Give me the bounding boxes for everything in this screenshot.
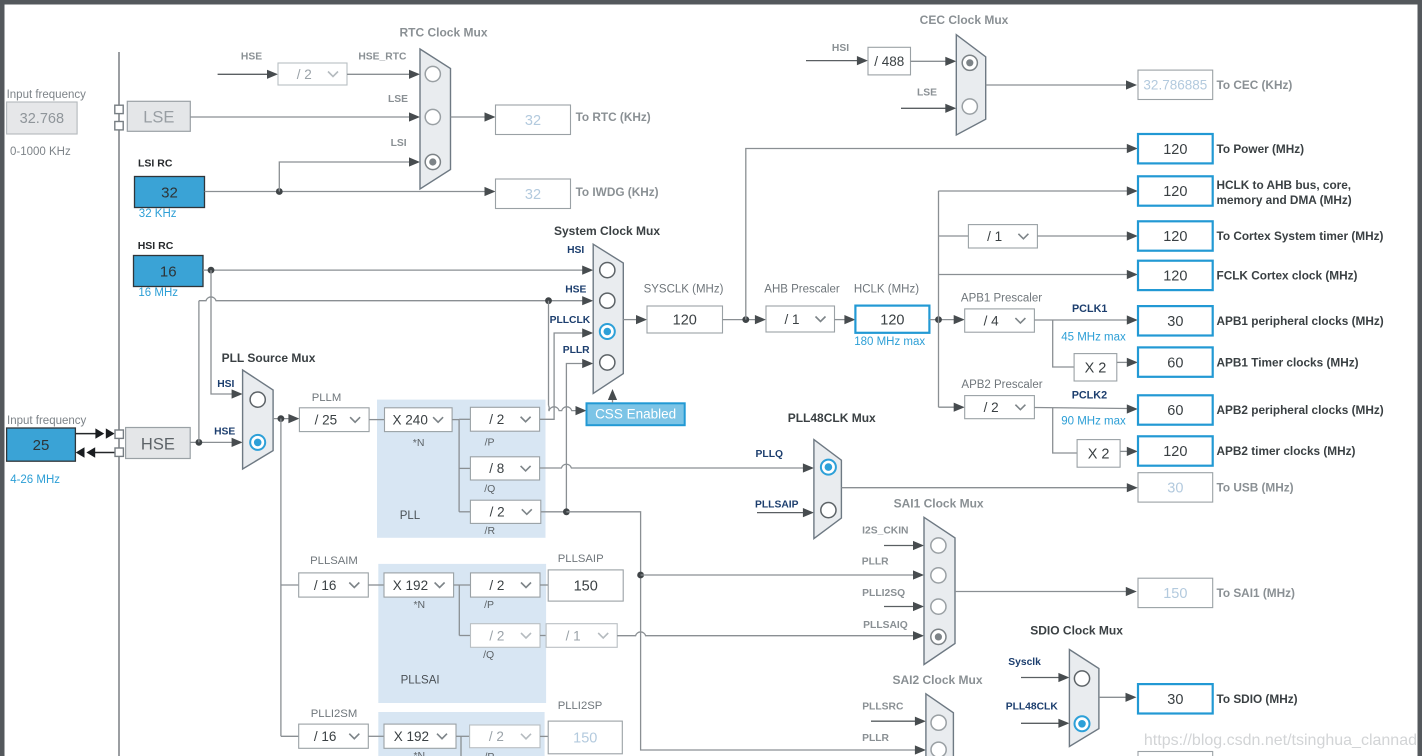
mux: SAI1 Clock Mux bbox=[924, 517, 955, 664]
radio: sai2 PLLSRC bbox=[931, 715, 946, 730]
label: HCLK (MHz) bbox=[854, 283, 919, 295]
wire: RTC mux to To RTC box bbox=[451, 112, 496, 121]
radio: sys PLLCLK selected bbox=[600, 324, 615, 339]
wire: APB2 out bbox=[1034, 404, 1137, 413]
title: RTC Clock Mux bbox=[399, 26, 487, 40]
svg-text:APB1 Timer clocks (MHz): APB1 Timer clocks (MHz) bbox=[1217, 355, 1359, 369]
block: PLLI2S background bbox=[378, 712, 544, 756]
wire: HSI stub to /488 bbox=[806, 56, 868, 65]
radio: pll48 PLLSAIP bbox=[821, 503, 836, 518]
svg-text:25: 25 bbox=[33, 437, 50, 454]
svg-text:/ 4: / 4 bbox=[984, 313, 1000, 328]
svg-text:HSE_RTC: HSE_RTC bbox=[358, 52, 407, 63]
dropdown: Cortex /1 bbox=[968, 225, 1037, 248]
svg-text:APB2 Prescaler: APB2 Prescaler bbox=[961, 379, 1042, 391]
svg-text:LSI RC: LSI RC bbox=[138, 158, 173, 170]
radio: sys PLLR bbox=[600, 355, 615, 370]
svg-text:SAI2 Clock Mux: SAI2 Clock Mux bbox=[892, 673, 982, 687]
svg-text:180 MHz max: 180 MHz max bbox=[854, 336, 925, 348]
watermark bbox=[1144, 732, 1417, 749]
svg-text:HSI: HSI bbox=[217, 379, 234, 390]
label: APB2 Prescaler bbox=[961, 379, 1042, 391]
mux: RTC Clock Mux bbox=[420, 49, 451, 189]
svg-text:90 MHz max: 90 MHz max bbox=[1061, 416, 1126, 428]
svg-text:PLL48CLK: PLL48CLK bbox=[1006, 702, 1059, 713]
radio: RTC LSI selected bbox=[425, 154, 440, 169]
wire: HSI down to PLL mux bbox=[211, 270, 243, 399]
radio: sai1 PLLR bbox=[931, 568, 946, 583]
svg-text:30: 30 bbox=[1167, 692, 1183, 708]
svg-text:HSI: HSI bbox=[567, 245, 584, 256]
svg-text:PLLSAIM: PLLSAIM bbox=[310, 555, 358, 567]
svg-text:60: 60 bbox=[1167, 403, 1183, 419]
svg-text:16: 16 bbox=[160, 263, 177, 280]
dropdown: APB2 /2 bbox=[965, 396, 1035, 419]
svg-text:*N: *N bbox=[413, 750, 425, 756]
title: PLL48CLK Mux bbox=[788, 411, 876, 425]
label: PCLK2 bbox=[1072, 390, 1107, 402]
wire: X2 to APB1 timer box bbox=[1117, 358, 1138, 367]
wire: to HCLK-AHB box bbox=[939, 186, 1138, 195]
wire: PLLCLK from /P to system mux bbox=[540, 328, 593, 419]
wire: PLL source vertical to PLLSAIM/PLLI2SM bbox=[281, 419, 299, 737]
wire: PLL mux out to PLLM bbox=[273, 414, 299, 423]
block: PLLSAI background bbox=[378, 564, 546, 703]
svg-text:/Q: /Q bbox=[483, 649, 494, 661]
box: bottom cut output box bbox=[1138, 752, 1213, 756]
svg-text:To USB (MHz): To USB (MHz) bbox=[1217, 481, 1294, 495]
label: PLLSAIP (pll48 input) bbox=[755, 500, 799, 511]
wire: APB1 X2 branch bbox=[1053, 320, 1074, 367]
label: HSE_RTC bbox=[358, 52, 407, 63]
dropdown: PLLI2SM /16 bbox=[299, 724, 369, 748]
label: PLLM bbox=[312, 392, 342, 404]
svg-text:32: 32 bbox=[525, 187, 541, 203]
svg-text:To SDIO (MHz): To SDIO (MHz) bbox=[1217, 692, 1298, 706]
wire: HCLK vertical bbox=[938, 191, 940, 407]
svg-text:PLLI2SM: PLLI2SM bbox=[311, 708, 357, 720]
label: PLLR (sai2) bbox=[862, 733, 889, 744]
svg-text:AHB Prescaler: AHB Prescaler bbox=[764, 283, 840, 295]
label: HSI (cec stub) bbox=[832, 43, 849, 54]
svg-text:/P: /P bbox=[485, 437, 495, 449]
svg-text:LSI: LSI bbox=[391, 138, 407, 149]
dropdown: AHB /1 bbox=[766, 306, 835, 332]
label: Input frequency (HSE) bbox=[7, 415, 87, 427]
label: PLLI2SM bbox=[311, 708, 357, 720]
radio: RTC HSE_RTC bbox=[425, 66, 440, 81]
svg-text:/ 16: / 16 bbox=[314, 578, 337, 593]
wire: to cortex divider bbox=[939, 235, 969, 237]
svg-text:/ 2: / 2 bbox=[490, 505, 505, 520]
wire: PLL48CLK stub bbox=[1021, 719, 1069, 728]
svg-text:https://blog.csdn.net/tsinghua: https://blog.csdn.net/tsinghua_clannad bbox=[1144, 732, 1417, 749]
radio: sai1 PLLSAIQ selected bbox=[931, 629, 946, 644]
label: I2S_CKIN bbox=[862, 526, 908, 537]
mux: CEC Clock Mux bbox=[956, 35, 985, 135]
svg-text:LSE: LSE bbox=[917, 87, 937, 98]
svg-text:4-26 MHz: 4-26 MHz bbox=[10, 474, 60, 486]
box: HSI RC 16 bbox=[134, 256, 204, 287]
label: Input frequency (LSE) bbox=[7, 89, 87, 101]
svg-text:PLLSRC: PLLSRC bbox=[862, 702, 904, 713]
wire: PLLI2SQ stub bbox=[884, 602, 924, 611]
label: PLLQ bbox=[756, 449, 783, 460]
dropdown: PLL N X240 bbox=[385, 408, 453, 432]
label: Sysclk bbox=[1008, 657, 1041, 668]
wire: I2S_CKIN stub bbox=[884, 541, 924, 550]
box: X2 (APB1 timers) bbox=[1074, 354, 1117, 381]
dropdown: APB1 /4 bbox=[965, 309, 1035, 332]
wire: HSE up and to system mux bbox=[199, 296, 593, 442]
box: X2 (APB2 timers) bbox=[1077, 440, 1120, 468]
svg-text:120: 120 bbox=[1163, 444, 1187, 460]
box+label: HCLK to AHB bus bbox=[1138, 176, 1352, 207]
svg-text:System Clock Mux: System Clock Mux bbox=[554, 224, 660, 238]
label: HSI (sys input) bbox=[567, 245, 584, 256]
dropdown: PLLSAI N X192 bbox=[384, 573, 454, 597]
svg-text:To RTC (KHz): To RTC (KHz) bbox=[576, 110, 651, 124]
title: CEC Clock Mux bbox=[920, 13, 1009, 27]
box+label: To Power (MHz) bbox=[1138, 134, 1304, 163]
wire: LSE stub to CEC mux bbox=[901, 104, 956, 113]
label: 4-26 MHz bbox=[10, 474, 60, 486]
svg-text:45 MHz max: 45 MHz max bbox=[1061, 331, 1126, 343]
wire: SYSCLK to AHB prescaler bbox=[723, 315, 766, 324]
svg-text:/ 2: / 2 bbox=[489, 729, 504, 744]
box: LSE oscillator bbox=[127, 101, 190, 131]
dropdown: PLL /R bbox=[470, 500, 540, 523]
label: To IWDG (KHz) bbox=[576, 185, 659, 199]
label: LSE (rtc input) bbox=[388, 94, 408, 105]
box+label: To SAI1 (MHz) bbox=[1138, 578, 1295, 607]
box+label: To Cortex System timer (MHz) bbox=[1138, 221, 1384, 250]
svg-text:memory and DMA (MHz): memory and DMA (MHz) bbox=[1217, 193, 1352, 207]
wire: LSI branch to RTC mux bbox=[279, 157, 420, 191]
mux: SDIO Clock Mux bbox=[1069, 650, 1099, 747]
svg-text:120: 120 bbox=[1163, 142, 1187, 158]
svg-text:HSI RC: HSI RC bbox=[138, 240, 174, 252]
wire: CEC mux to To CEC box bbox=[986, 80, 1137, 89]
dropdown: PLLM /25 bbox=[299, 408, 369, 432]
dropdown: PLLSAIM /16 bbox=[299, 573, 369, 597]
dropdown: PLL /Q bbox=[470, 457, 539, 480]
wire: APB2 X2 branch bbox=[1053, 408, 1077, 454]
label: LSI RC bbox=[138, 158, 173, 170]
svg-text:16 MHz: 16 MHz bbox=[138, 287, 178, 299]
wire: AHB to HCLK bbox=[835, 315, 856, 324]
wire: divider to RTC mux bbox=[347, 70, 420, 79]
svg-text:/ 2: / 2 bbox=[297, 67, 312, 82]
wire: PLLSAIM to X192 bbox=[368, 584, 384, 586]
svg-text:PLLR: PLLR bbox=[563, 345, 590, 356]
label: *N (PLL) bbox=[413, 437, 425, 449]
svg-text:CSS Enabled: CSS Enabled bbox=[595, 407, 676, 422]
label: PLLSAIP (box label) bbox=[558, 553, 604, 565]
svg-text:X 240: X 240 bbox=[393, 413, 428, 428]
box: PLLSAIP 150 bbox=[548, 570, 623, 601]
svg-text:HSI: HSI bbox=[832, 43, 849, 54]
svg-text:PLL: PLL bbox=[400, 510, 421, 522]
title: PLL Source Mux bbox=[222, 351, 316, 365]
label: /R (PLL) bbox=[485, 525, 496, 537]
label: PLLSAI bbox=[401, 675, 440, 687]
label: /P (PLLI2S) bbox=[484, 751, 494, 756]
box: HCLK 120 bbox=[855, 306, 929, 333]
label: PLL bbox=[400, 510, 421, 522]
mux: PLL Source Mux bbox=[243, 370, 274, 469]
svg-text:/ 1: / 1 bbox=[566, 628, 581, 643]
box+label: APB1 Timer clocks (MHz) bbox=[1138, 347, 1359, 376]
radio: CEC HSI selected bbox=[962, 55, 977, 70]
mux: System Clock Mux bbox=[593, 244, 623, 393]
svg-text:*N: *N bbox=[413, 437, 425, 449]
svg-text:PLLCLK: PLLCLK bbox=[550, 315, 591, 326]
svg-text:/P: /P bbox=[484, 751, 494, 756]
svg-text:150: 150 bbox=[573, 731, 597, 747]
svg-text:APB2 peripheral clocks (MHz): APB2 peripheral clocks (MHz) bbox=[1217, 403, 1384, 417]
svg-text:PLLSAI: PLLSAI bbox=[401, 675, 440, 687]
radio: sai1 PLLI2SQ bbox=[931, 599, 946, 614]
label: HSE (rtc stub) bbox=[241, 52, 262, 63]
box: CSS Enabled bbox=[587, 403, 685, 425]
radio: sys HSI bbox=[600, 263, 615, 278]
svg-text:0-1000 KHz: 0-1000 KHz bbox=[10, 146, 71, 158]
radio: RTC LSE bbox=[425, 109, 440, 124]
box+label: FCLK Cortex clock (MHz) bbox=[1138, 261, 1357, 290]
wire: to FCLK box bbox=[939, 270, 1138, 279]
label: APB1 Prescaler bbox=[961, 292, 1042, 304]
svg-text:/ 2: / 2 bbox=[489, 578, 504, 593]
label: 45 MHz max bbox=[1061, 331, 1126, 343]
svg-text:/ 16: / 16 bbox=[314, 729, 337, 744]
svg-text:X 2: X 2 bbox=[1088, 447, 1110, 463]
wire: X240 split to P/Q/R bbox=[452, 419, 470, 512]
svg-text:LSE: LSE bbox=[388, 94, 408, 105]
svg-text:PCLK1: PCLK1 bbox=[1072, 303, 1107, 315]
svg-text:PLLR: PLLR bbox=[862, 733, 889, 744]
svg-text:HSE: HSE bbox=[214, 427, 235, 438]
wire: X2 to APB2 timer box bbox=[1120, 447, 1138, 456]
svg-text:APB2 timer clocks (MHz): APB2 timer clocks (MHz) bbox=[1217, 444, 1356, 458]
svg-text:PLLSAIP: PLLSAIP bbox=[755, 500, 799, 511]
wire: CSS tap from HSE bbox=[549, 301, 587, 416]
label: *N (PLLSAI) bbox=[413, 599, 425, 611]
svg-text:32.768: 32.768 bbox=[20, 111, 64, 127]
label: PLLI2SP bbox=[558, 700, 603, 712]
box+label: APB2 timer clocks (MHz) bbox=[1138, 436, 1356, 465]
wire: SDIO mux to box bbox=[1099, 693, 1137, 702]
wire: PLLR from /R to system mux and SAI bbox=[541, 359, 926, 755]
svg-text:PLLM: PLLM bbox=[312, 392, 342, 404]
wire: Sysclk stub bbox=[1021, 673, 1069, 682]
svg-text:APB1 peripheral clocks (MHz): APB1 peripheral clocks (MHz) bbox=[1217, 314, 1384, 328]
svg-text:120: 120 bbox=[673, 313, 697, 329]
wire: to APB2 prescaler bbox=[939, 403, 965, 412]
label: /P (PLLSAI) bbox=[484, 599, 494, 611]
label: PLLSAIQ (sai1) bbox=[863, 620, 908, 631]
svg-text:CEC Clock Mux: CEC Clock Mux bbox=[920, 13, 1009, 27]
svg-text:To IWDG (KHz): To IWDG (KHz) bbox=[576, 185, 659, 199]
wire: cortex divider to box bbox=[1037, 231, 1137, 240]
label: HSE (sys input) bbox=[565, 285, 586, 296]
svg-text:PLLSAIQ: PLLSAIQ bbox=[863, 620, 908, 631]
svg-text:To Power (MHz): To Power (MHz) bbox=[1217, 142, 1305, 156]
label: 90 MHz max bbox=[1061, 416, 1126, 428]
wire: HCLK out to APB1 bbox=[929, 315, 964, 324]
wire: PLLSRC stub bbox=[871, 717, 926, 726]
box: HSE oscillator bbox=[126, 428, 191, 459]
box+label: To USB (MHz) bbox=[1138, 473, 1294, 502]
wire: HSE out to PLL mux bbox=[190, 438, 242, 447]
label: PLL48CLK (sdio) bbox=[1006, 702, 1059, 713]
svg-text:120: 120 bbox=[880, 312, 904, 328]
svg-text:PLLQ: PLLQ bbox=[756, 449, 783, 460]
wire: HSI out to system mux bbox=[203, 266, 593, 275]
title: SDIO Clock Mux bbox=[1030, 624, 1123, 638]
wire: X192-2 split bbox=[456, 736, 470, 756]
box+label: To SDIO (MHz) bbox=[1138, 684, 1298, 713]
wire: left source rail vertical bbox=[118, 52, 120, 756]
svg-text:/ 2: / 2 bbox=[489, 628, 504, 643]
svg-text:Input frequency: Input frequency bbox=[7, 415, 87, 427]
svg-text:32: 32 bbox=[525, 113, 541, 129]
svg-text:30: 30 bbox=[1167, 481, 1183, 497]
label: /P (PLL) bbox=[485, 437, 495, 449]
svg-text:HCLK to AHB bus, core,: HCLK to AHB bus, core, bbox=[1217, 178, 1352, 192]
svg-text:/ 2: / 2 bbox=[984, 400, 999, 415]
svg-text:APB1 Prescaler: APB1 Prescaler bbox=[961, 292, 1042, 304]
wire: PLL48 mux to USB box bbox=[841, 483, 1137, 492]
dropdown: PLLSAI /Q bbox=[471, 624, 541, 648]
box+label: APB1 peripheral clocks (MHz) bbox=[1138, 306, 1384, 335]
svg-text:X 192: X 192 bbox=[393, 578, 428, 593]
wire: /P to PLLI2SP box bbox=[540, 735, 548, 737]
box: To IWDG value 32 bbox=[496, 179, 571, 209]
label: HSE (pll input) bbox=[214, 427, 235, 438]
label: HSI RC bbox=[138, 240, 174, 252]
svg-text:PLL Source Mux: PLL Source Mux bbox=[222, 351, 316, 365]
label: PLLR (sai1) bbox=[862, 556, 889, 567]
svg-text:PCLK2: PCLK2 bbox=[1072, 390, 1107, 402]
dropdown: RTC HSE divider /2 bbox=[278, 63, 347, 85]
svg-text:*N: *N bbox=[413, 599, 425, 611]
svg-text:RTC Clock Mux: RTC Clock Mux bbox=[399, 26, 487, 40]
svg-text:/ 2: / 2 bbox=[489, 412, 504, 427]
svg-text:/ 1: / 1 bbox=[987, 229, 1002, 244]
svg-text:X 192: X 192 bbox=[394, 729, 429, 744]
svg-text:150: 150 bbox=[574, 579, 598, 595]
label: PLLSAIM bbox=[310, 555, 358, 567]
wire: APB1 out bbox=[1034, 315, 1137, 324]
label: PLLR (sys input) bbox=[563, 345, 590, 356]
label: *N (PLLI2S) bbox=[413, 750, 425, 756]
wire: /488 to CEC mux bbox=[910, 57, 956, 66]
wire: X192 split bbox=[454, 585, 471, 636]
svg-text:To CEC (KHz): To CEC (KHz) bbox=[1217, 78, 1293, 92]
wire: PLLQ from /Q bbox=[540, 463, 814, 472]
title: SAI1 Clock Mux bbox=[894, 497, 984, 511]
title: System Clock Mux bbox=[554, 224, 660, 238]
dropdown: PLLSAI /Q divider /1 bbox=[546, 624, 617, 648]
svg-text:/ 1: / 1 bbox=[785, 312, 800, 327]
svg-text:32 KHz: 32 KHz bbox=[139, 208, 177, 220]
wire: PLLSAIP stub to PLL48 mux bbox=[757, 508, 814, 517]
radio: sai2 PLLR bbox=[931, 742, 946, 756]
box: SYSCLK 120 bbox=[647, 306, 723, 333]
radio: sdio PLL48CLK selected bbox=[1075, 716, 1090, 731]
label: PLLI2SQ (sai1) bbox=[862, 588, 905, 599]
wire: PLLM to X240 bbox=[369, 419, 384, 421]
dropdown: PLLSAI /P bbox=[471, 573, 541, 597]
radio: PLL HSE selected bbox=[250, 435, 265, 450]
svg-text:I2S_CKIN: I2S_CKIN bbox=[862, 526, 908, 537]
radio: PLL HSI bbox=[250, 392, 265, 407]
box: HSE input frequency 25 bbox=[7, 428, 76, 461]
label: SYSCLK (MHz) bbox=[644, 283, 724, 295]
label: HSI (pll input) bbox=[217, 379, 234, 390]
svg-text:30: 30 bbox=[1167, 314, 1183, 330]
svg-text:120: 120 bbox=[1163, 184, 1187, 200]
label: 180 MHz max bbox=[854, 336, 925, 348]
port squares HSE bbox=[115, 430, 123, 456]
svg-text:PLLI2SQ: PLLI2SQ bbox=[862, 588, 905, 599]
svg-text:32: 32 bbox=[161, 184, 178, 201]
svg-text:PLLSAIP: PLLSAIP bbox=[558, 553, 604, 565]
label: 16 MHz bbox=[138, 287, 178, 299]
wire: /Q to /1 bbox=[540, 635, 546, 637]
svg-text:HSE: HSE bbox=[241, 52, 262, 63]
svg-text:120: 120 bbox=[1163, 229, 1187, 245]
radio: sys HSE bbox=[600, 293, 615, 308]
label: 32 KHz bbox=[139, 208, 177, 220]
svg-text:HSE: HSE bbox=[565, 285, 586, 296]
svg-text:SAI1 Clock Mux: SAI1 Clock Mux bbox=[894, 497, 984, 511]
box: PLLI2SP 150 bbox=[548, 721, 622, 754]
label: /Q (PLL) bbox=[484, 483, 495, 495]
dropdown: PLLI2S /P bbox=[470, 725, 540, 748]
mux: PLL48CLK Mux bbox=[814, 440, 842, 539]
svg-text:PLLR: PLLR bbox=[862, 556, 889, 567]
svg-text:/ 8: / 8 bbox=[489, 461, 504, 476]
svg-text:X 2: X 2 bbox=[1085, 361, 1107, 377]
label: PLLCLK (sys input) bbox=[550, 315, 591, 326]
dropdown: PLL /P bbox=[470, 407, 539, 431]
label: LSE (cec stub) bbox=[917, 87, 937, 98]
box+label: To CEC (KHz) bbox=[1138, 70, 1292, 99]
dropdown: PLLI2S N X192 bbox=[384, 724, 456, 748]
wire: HSE input out arrow (double) bbox=[75, 428, 114, 438]
wire: system mux to SYSCLK bbox=[623, 315, 647, 324]
box: To RTC value 32 bbox=[496, 105, 571, 135]
wire: LSI out to IWDG bbox=[205, 187, 496, 196]
wire: riser to To Power bbox=[746, 144, 1138, 320]
svg-text:LSE: LSE bbox=[143, 109, 174, 127]
label: PCLK1 bbox=[1072, 303, 1107, 315]
svg-text:Input frequency: Input frequency bbox=[7, 89, 87, 101]
svg-text:HCLK (MHz): HCLK (MHz) bbox=[854, 283, 919, 295]
wire: SAI1 mux to box bbox=[955, 587, 1137, 596]
svg-text:/Q: /Q bbox=[484, 483, 495, 495]
label: 0-1000 KHz bbox=[10, 146, 71, 158]
svg-text:150: 150 bbox=[1163, 586, 1187, 602]
svg-text:/R: /R bbox=[485, 525, 496, 537]
wire: PLLI2SM to X192 bbox=[368, 735, 384, 737]
wire: /P to PLLSAIP box bbox=[540, 584, 548, 586]
svg-text:Sysclk: Sysclk bbox=[1008, 657, 1041, 668]
svg-text:60: 60 bbox=[1167, 355, 1183, 371]
wire: PLLSAIQ to SAI1 mux bbox=[617, 631, 924, 640]
